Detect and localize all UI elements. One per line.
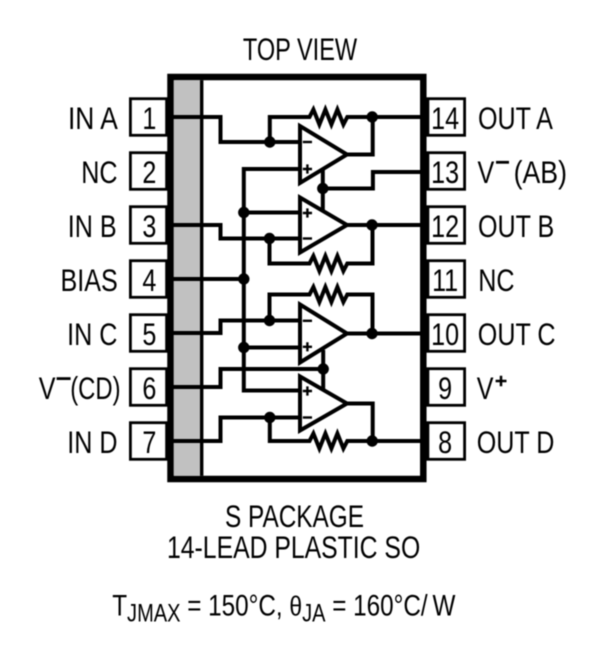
svg-text:(CD): (CD) xyxy=(70,371,120,406)
svg-text:5: 5 xyxy=(142,317,156,352)
svg-text:OUT B: OUT B xyxy=(478,209,554,244)
svg-text:8: 8 xyxy=(438,425,452,460)
svg-text:OUT D: OUT D xyxy=(477,425,555,460)
svg-text:4: 4 xyxy=(142,263,156,298)
svg-text:1: 1 xyxy=(142,101,156,136)
svg-text:10: 10 xyxy=(431,317,459,352)
svg-text:12: 12 xyxy=(431,209,459,244)
svg-text:9: 9 xyxy=(438,371,452,406)
svg-text:IN A: IN A xyxy=(68,102,118,137)
svg-text:(AB): (AB) xyxy=(514,156,567,190)
svg-text:IN C: IN C xyxy=(67,317,117,352)
svg-text:14-LEAD PLASTIC SO: 14-LEAD PLASTIC SO xyxy=(167,529,420,565)
svg-text:11: 11 xyxy=(432,263,458,298)
svg-text:V: V xyxy=(39,371,56,406)
svg-text:OUT A: OUT A xyxy=(478,101,553,136)
svg-text:V: V xyxy=(477,371,494,406)
svg-text:BIAS: BIAS xyxy=(60,263,117,298)
svg-text:3: 3 xyxy=(142,209,156,244)
svg-text:OUT C: OUT C xyxy=(478,317,556,352)
svg-text:TOP VIEW: TOP VIEW xyxy=(243,32,358,67)
svg-text:NC: NC xyxy=(81,155,117,190)
svg-text:13: 13 xyxy=(431,155,459,190)
svg-text:2: 2 xyxy=(142,155,156,190)
svg-text:NC: NC xyxy=(478,263,514,298)
svg-text:IN D: IN D xyxy=(67,425,117,460)
svg-text:V: V xyxy=(478,155,495,190)
svg-text:6: 6 xyxy=(142,371,156,406)
svg-text:14: 14 xyxy=(431,101,459,136)
svg-text:IN B: IN B xyxy=(68,209,117,244)
svg-text:7: 7 xyxy=(142,425,156,460)
